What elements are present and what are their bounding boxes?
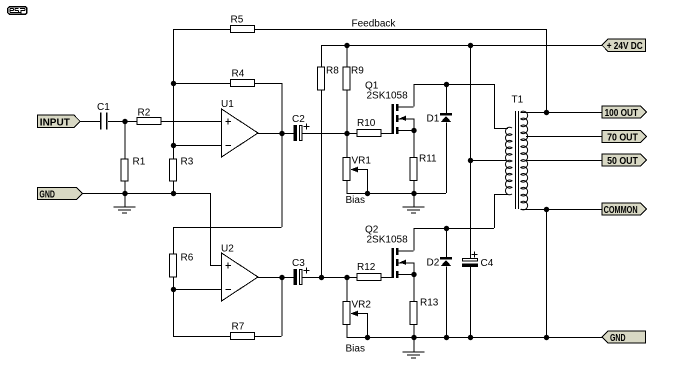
port GND left [38, 187, 83, 199]
wire centre tap lead [470, 160, 506, 162]
svg-text:C4: C4 [481, 258, 494, 269]
node R8 lower junction [319, 275, 324, 280]
wire U2 output [258, 277, 294, 279]
wire 70V tap [526, 136, 602, 138]
ground symbol input [124, 193, 126, 207]
svg-text:Bias: Bias [346, 195, 365, 206]
wire D1 bottom lead [446, 123, 448, 194]
svg-text:2SK1058: 2SK1058 [367, 91, 409, 102]
resistor R6 [170, 254, 177, 277]
svg-text:U2: U2 [221, 244, 234, 255]
node R11 ground junction [411, 191, 416, 196]
wire C2 to gate node [303, 133, 357, 135]
svg-text:D1: D1 [427, 114, 440, 125]
svg-text:R5: R5 [231, 15, 244, 26]
wire R1 bottom lead [124, 182, 126, 194]
wire Q2 source lead [398, 274, 414, 276]
resistor R13 [410, 302, 417, 325]
svg-text:100 OUT: 100 OUT [605, 107, 639, 119]
wire Q1 source lead [398, 130, 414, 132]
wire 100V tap [521, 112, 603, 114]
wire R8 bottom long lead to lower gate node [321, 91, 323, 278]
wire common tap [521, 209, 603, 211]
wire C4 bottom lead [470, 267, 472, 337]
port 70 OUT [602, 130, 647, 142]
wire VR1 wiper down [367, 169, 369, 193]
node U2 output junction [279, 275, 284, 280]
wire R1 top lead [124, 121, 126, 159]
resistor R9 [343, 67, 350, 90]
ESP logo [7, 6, 28, 15]
node common ground junction [544, 335, 549, 340]
resistor R7 [231, 333, 255, 340]
node U2 - junction [171, 287, 176, 292]
node U1 output junction [279, 131, 284, 136]
wire VR1 bottom lead and bias rail [346, 181, 348, 193]
resistor R1 [121, 159, 128, 181]
node +24V C4 junction [468, 43, 473, 48]
wire Q1 source down to R11 [413, 130, 415, 157]
wire ground rail bottom [347, 337, 603, 339]
wire R4 right lead down to U1 output [281, 83, 283, 133]
node Q1 source junction [411, 128, 416, 133]
svg-text:U1: U1 [221, 99, 234, 110]
node Q2 source junction [411, 272, 416, 277]
wire R7 line [173, 336, 230, 338]
wire R6 bottom lead [173, 278, 175, 290]
wire VR2 bottom lead [346, 325, 348, 337]
diode D2 [446, 228, 448, 258]
node U1 - junction [171, 143, 176, 148]
svg-text:Feedback: Feedback [352, 19, 397, 30]
wire Q2 drain lead [398, 250, 414, 252]
VR2 wiper arrow [356, 313, 367, 315]
wire R8 top lead [321, 45, 323, 67]
T1 secondary winding [521, 111, 528, 210]
ground symbol Q1 [413, 193, 415, 207]
node VR1 wiper junction [365, 191, 370, 196]
wire Q1 body lead [398, 118, 414, 120]
wire +24V rail [321, 45, 602, 47]
wire Q2 drain rail [414, 228, 495, 230]
wire U1 output [258, 133, 294, 135]
svg-text:R3: R3 [181, 157, 194, 168]
node D2 ground junction [444, 335, 449, 340]
op-amp U1 [222, 109, 259, 157]
svg-text:T1: T1 [512, 95, 524, 106]
resistor R11 [410, 158, 417, 181]
VR1 wiper arrow [356, 169, 367, 171]
wire R3 bottom lead [173, 182, 175, 194]
svg-text:D2: D2 [427, 258, 440, 269]
wire C4 top lead [470, 160, 472, 258]
svg-text:R9: R9 [351, 66, 364, 77]
wire R7 left lead [173, 289, 175, 336]
wire Q2 source down to R13 [413, 274, 415, 301]
port 50 OUT [602, 154, 647, 166]
wire U1 - input [173, 145, 221, 147]
wire R13 bottom lead [413, 325, 415, 337]
svg-text:R2: R2 [138, 108, 151, 119]
diode D1 [446, 84, 448, 114]
node R3 ground junction [171, 191, 176, 196]
svg-text:R12: R12 [357, 262, 376, 273]
node D1 top junction [444, 82, 449, 87]
node R4 left junction [171, 81, 176, 86]
capacitor C3 [294, 269, 298, 285]
wire R5/R4 left column [173, 29, 175, 159]
svg-text:70 OUT: 70 OUT [607, 132, 638, 144]
svg-text:C2: C2 [292, 114, 305, 125]
wire input to C1 [80, 121, 100, 123]
wire R9 bottom lead [346, 91, 348, 134]
wire ground rail to U2 + input [210, 193, 212, 265]
node D2 top junction [444, 226, 449, 231]
svg-text:VR2: VR2 [352, 300, 372, 311]
wire C4 column from +24V [470, 45, 472, 160]
resistor R10 [357, 130, 381, 137]
svg-text:R10: R10 [357, 118, 376, 129]
svg-text:INPUT: INPUT [40, 116, 71, 128]
resistor R12 [357, 274, 381, 281]
svg-text:50 OUT: 50 OUT [607, 155, 638, 167]
wire R12 to Q2 gate [382, 277, 393, 279]
ground symbol Q2 [413, 337, 415, 352]
wire D2 bottom lead [446, 267, 448, 338]
transistor Q2 2SK1058 [392, 248, 394, 278]
wire Q2 body lead [398, 262, 414, 264]
svg-text:VR1: VR1 [352, 156, 372, 167]
svg-text:GND: GND [39, 188, 55, 200]
port 100 OUT [602, 106, 647, 118]
svg-text:R7: R7 [232, 322, 245, 333]
svg-text:C3: C3 [292, 258, 305, 269]
wire R11 bottom lead [413, 181, 415, 193]
svg-text:R1: R1 [133, 157, 146, 168]
wire C3 to lower gate node [303, 277, 357, 279]
resistor R4 [231, 80, 255, 87]
wire ground rail [83, 193, 211, 195]
node C4 ground junction [468, 335, 473, 340]
capacitor C1 [100, 113, 102, 130]
resistor R2 [137, 118, 161, 125]
resistor R3 [170, 159, 177, 181]
wire VR2 top lead [346, 277, 348, 301]
wire VR1 top lead [346, 133, 348, 157]
svg-text:2SK1058: 2SK1058 [367, 235, 409, 246]
wire R4 line [173, 83, 230, 85]
capacitor C4 [463, 259, 478, 262]
port COMMON [602, 203, 647, 215]
node gate bias node A1 [344, 131, 349, 136]
wire U1 output feed down to R6 [281, 133, 283, 227]
wire Q1 drain lead [398, 106, 414, 108]
svg-text:R13: R13 [420, 298, 439, 309]
T1 core [515, 111, 517, 209]
capacitor C2 [294, 125, 298, 141]
svg-text:Bias: Bias [346, 344, 365, 355]
svg-text:GND: GND [610, 332, 626, 344]
wire 50V tap [526, 160, 602, 162]
node centre tap junction [468, 158, 473, 163]
node VR2 wiper junction [365, 335, 370, 340]
wire C1 to junction [108, 121, 137, 123]
wire primary bottom lead [494, 194, 496, 228]
wire U2 - input [173, 289, 221, 291]
wire R9 top lead [346, 45, 348, 67]
node R13 ground junction [411, 335, 416, 340]
resistor R8 [318, 67, 325, 90]
svg-text:R6: R6 [181, 253, 194, 264]
wire primary top lead [494, 84, 496, 128]
transistor Q1 2SK1058 [392, 104, 394, 134]
wire Q1 drain rail [414, 84, 495, 86]
T1 primary winding [505, 127, 512, 195]
wire R2 to U1 + input [162, 121, 222, 123]
node R1 ground junction [122, 191, 127, 196]
wire VR2 wiper down [367, 313, 369, 337]
wire R7 right lead up to U2 output [281, 277, 283, 336]
resistor R5 [231, 26, 255, 33]
svg-text:+ 24V DC: + 24V DC [607, 40, 643, 52]
node common junction [544, 207, 549, 212]
node feedback tap junction [544, 110, 549, 115]
port GND right [602, 331, 646, 343]
wire R10 to Q1 gate [382, 133, 393, 135]
port INPUT [38, 115, 81, 127]
wire feedback down to 100V tap [546, 29, 548, 112]
svg-text:R4: R4 [232, 69, 245, 80]
trimpot VR2 [343, 302, 350, 325]
trimpot VR1 [343, 158, 350, 181]
svg-text:C1: C1 [97, 102, 110, 113]
wire common down to ground rail [546, 209, 548, 337]
node input junction [122, 119, 127, 124]
op-amp U2 [222, 253, 259, 301]
svg-text:R8: R8 [326, 66, 339, 77]
svg-text:COMMON: COMMON [604, 204, 638, 216]
node lower gate bias node A2 [344, 275, 349, 280]
node R9 top junction [344, 43, 349, 48]
wire feedback top [173, 29, 230, 31]
svg-text:R11: R11 [419, 154, 437, 165]
port +24V DC [602, 39, 646, 51]
